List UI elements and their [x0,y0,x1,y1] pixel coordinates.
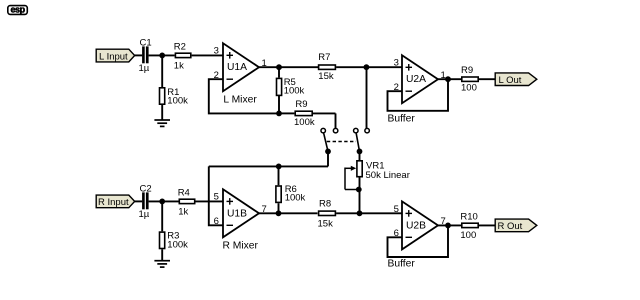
svg-text:1µ: 1µ [139,209,150,220]
svg-text:100k: 100k [167,96,188,107]
switch S1b arm [356,133,359,151]
potentiometer VR1 [345,152,410,214]
switch S1a fixed contact (from R9) [333,128,338,133]
wire: U2B output [438,224,461,226]
wire: R8 to U2B pin 5 [336,212,402,214]
svg-text:100k: 100k [285,193,306,204]
svg-text:1k: 1k [178,207,188,218]
node: L input junction [159,53,165,59]
svg-text:U1A: U1A [227,62,247,73]
ground (R bias) [154,261,170,267]
node: S1a arm pivot [325,149,331,155]
svg-text:L Input: L Input [99,51,128,62]
svg-text:U2B: U2B [406,220,426,231]
wire: S1a pivot down to cross-feed line [327,151,329,166]
resistor R4 [178,187,195,217]
switch S1a fixed contact (open) [321,128,326,133]
wire: U1B feedback pin 6 [209,166,223,225]
switch gang link (dashed) [327,141,356,143]
svg-text:C1: C1 [140,38,152,49]
wire: node to R3 [161,201,163,231]
node: S1b arm pivot [357,149,363,155]
node: U1A output / R5 top [276,64,282,70]
svg-text:Buffer: Buffer [388,259,416,270]
wire: U1A output [259,66,318,68]
svg-text:Buffer: Buffer [388,114,416,125]
wire: U1B output [259,212,318,214]
svg-text:15k: 15k [318,219,334,230]
op-amp U1A [214,43,267,105]
node: U1A inverting node (R5/R9 junction) [276,111,282,117]
wire: R10 to R Out tag [479,224,495,226]
svg-text:L Out: L Out [499,75,522,86]
resistor R6 [276,166,306,213]
switch S1b fixed contact (open) [354,128,359,133]
resistor R10 [460,212,478,242]
capacitor C1 [139,38,152,75]
wire: node to R1 [161,55,163,87]
wire: R9 to L Out tag [479,78,495,80]
wire: C2 to R4 [149,200,179,202]
node: U2A output [445,76,451,82]
svg-text:L Mixer: L Mixer [223,94,257,105]
resistor R3 [160,231,189,251]
wire: L Input tag to C1 [135,54,143,56]
svg-text:15k: 15k [318,71,334,82]
svg-text:R Input: R Input [98,197,129,208]
switch S1b fixed contact (from R7 node) [365,128,370,133]
svg-text:3: 3 [214,46,219,57]
svg-text:50k Linear: 50k Linear [366,170,410,181]
svg-text:100: 100 [461,83,477,94]
L Input tag [96,49,135,62]
op-amp U1B [214,189,267,251]
svg-text:100k: 100k [284,86,305,97]
svg-text:R2: R2 [174,41,186,52]
node: U2B output [445,223,451,229]
svg-text:100k: 100k [294,117,315,128]
R Out tag [495,219,537,232]
wire: R1 to ground [161,105,163,120]
wire: U1A feedback pin 2 [209,79,279,113]
wire: R7 to U2A pin 3 [336,66,402,68]
wire: R3 to ground [161,249,163,260]
svg-text:U1B: U1B [227,208,247,219]
wire: node down to switch contact [366,67,368,128]
svg-text:R10: R10 [460,212,477,223]
node: R input junction [159,199,165,205]
svg-text:R Out: R Out [498,221,523,232]
svg-text:esp: esp [10,5,25,15]
svg-text:R9: R9 [461,65,473,76]
svg-text:R4: R4 [178,187,190,198]
svg-text:100k: 100k [167,239,188,250]
ground (L bias) [154,120,170,126]
svg-text:1µ: 1µ [139,63,150,74]
op-amp U2A [388,55,446,124]
L Out tag [495,73,537,86]
wire: U2A feedback [388,79,449,111]
switch S1a arm [324,133,328,151]
wire: U2B feedback [388,225,449,257]
resistor R2 [174,41,191,71]
node: R7 output / switch branch [364,64,370,70]
wire: cross-feed node line [209,165,328,167]
resistor R9 (cross-feed, 100k) [279,99,336,129]
node: VR1 bottom on R8 line [357,210,363,216]
svg-text:5: 5 [214,192,219,203]
node: U1B output / R6 bottom [276,210,282,216]
svg-text:R7: R7 [318,52,330,63]
node: R6 tap on cross-feed line [276,164,282,170]
esp logo [8,5,28,15]
svg-text:1k: 1k [174,61,184,72]
svg-text:U2A: U2A [406,74,426,85]
svg-text:R8: R8 [319,198,331,209]
op-amp U2B [388,201,446,269]
svg-text:3: 3 [394,58,399,69]
wire: R2 to U1A pin 3 [192,54,223,56]
wire: R4 to U1B pin 5 [196,200,224,202]
resistor R1 [160,87,189,107]
wire: R Input tag to C2 [135,200,143,202]
svg-text:5: 5 [394,204,399,215]
resistor R7 [318,52,335,82]
svg-text:6: 6 [214,216,219,227]
wire: C1 to R2 [149,54,175,56]
svg-text:R Mixer: R Mixer [223,241,259,252]
resistor R8 [318,198,336,229]
svg-text:R9: R9 [295,99,307,110]
capacitor C2 [139,184,152,221]
wire: U2A output [438,78,461,80]
resistor R9 (L output, 100) [461,65,478,94]
R Input tag [96,195,135,208]
svg-text:100: 100 [460,230,476,241]
svg-text:C2: C2 [140,184,152,195]
resistor R5 [277,67,305,113]
